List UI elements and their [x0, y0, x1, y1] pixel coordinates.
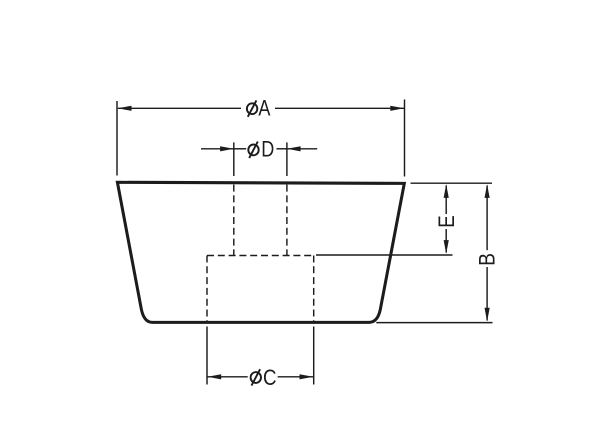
dimension E line upper segment: [445, 186, 447, 215]
diameter symbol of øC: [251, 369, 261, 385]
svg-text:A: A: [258, 97, 271, 121]
arrowhead øD right (pointing left): [287, 146, 301, 151]
dimension B line lower segment: [486, 267, 488, 321]
hidden bore øC dashed right edge: [313, 256, 315, 322]
svg-text:C: C: [263, 367, 277, 391]
arrowhead øC right (pointing right): [300, 374, 314, 379]
arrowhead E bottom (pointing down): [444, 240, 449, 254]
dimension øA line left segment: [118, 107, 241, 109]
arrowhead E top (pointing up): [444, 184, 449, 198]
arrowhead øA right: [390, 106, 404, 111]
dimension øA extension line left: [116, 101, 118, 176]
svg-text:B: B: [476, 253, 500, 266]
dimension øA line right segment: [275, 107, 404, 109]
part body outline: [117, 182, 404, 322]
dimension øD extension line right: [286, 142, 288, 176]
arrowhead øC left (pointing left): [208, 374, 222, 379]
arrowhead øD left (pointing right): [220, 146, 234, 151]
diameter symbol of øD: [248, 142, 258, 158]
hidden bore øD dashed line right: [286, 185, 288, 256]
extension line middle right (E bottom): [316, 254, 453, 256]
diameter symbol of øA: [247, 100, 257, 116]
dimension B line upper segment: [486, 186, 488, 251]
dimension øC extension line left: [206, 327, 208, 385]
hidden bore øD dashed line left: [233, 185, 235, 256]
extension line top right (B/E datum): [411, 182, 493, 184]
dimension øC extension line right: [313, 327, 315, 385]
dimension øC line right segment: [278, 376, 314, 378]
arrowhead B top (pointing up): [485, 184, 490, 198]
svg-text:D: D: [261, 138, 274, 162]
dimension øD extension line left: [233, 142, 235, 176]
dimension E line lower segment: [445, 229, 447, 253]
arrowhead B bottom (pointing down): [485, 308, 490, 322]
dimension øD outer line right: [287, 148, 317, 150]
svg-text:E: E: [436, 215, 460, 227]
arrowhead øA left: [118, 106, 132, 111]
dimension øD inner stub right: [277, 148, 287, 150]
dimension øD outer line left: [201, 148, 234, 150]
extension line bottom right (B bottom): [376, 322, 492, 324]
dimension øA extension line right: [404, 100, 406, 177]
dimension øD inner stub left: [234, 148, 246, 150]
hidden bore øC dashed top edge: [207, 255, 314, 257]
hidden bore øC dashed left edge: [206, 256, 208, 322]
dimension øC line left segment: [208, 376, 248, 378]
